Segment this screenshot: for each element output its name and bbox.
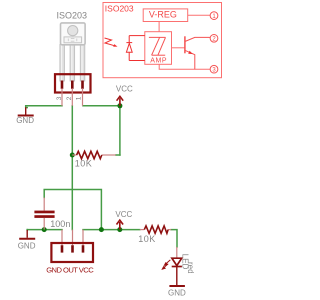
svg-text:GND: GND [168,289,186,298]
svg-text:100n: 100n [50,219,70,229]
svg-text:AMP: AMP [150,58,167,65]
svg-text:3: 3 [56,96,63,100]
svg-text:GND OUT VCC: GND OUT VCC [46,266,94,275]
svg-text:ISO203: ISO203 [105,4,134,14]
svg-text:10K: 10K [75,159,93,169]
svg-text:10K: 10K [138,234,156,244]
svg-text:VCC: VCC [116,84,133,93]
svg-text:1: 1 [75,96,82,100]
svg-text:red: red [186,262,195,274]
svg-text:ISO203: ISO203 [57,11,88,21]
svg-text:2: 2 [66,96,73,100]
svg-text:V-REG: V-REG [149,10,177,20]
svg-text:VCC: VCC [115,210,132,219]
svg-text:GND: GND [18,241,36,250]
svg-text:GND: GND [16,116,34,125]
